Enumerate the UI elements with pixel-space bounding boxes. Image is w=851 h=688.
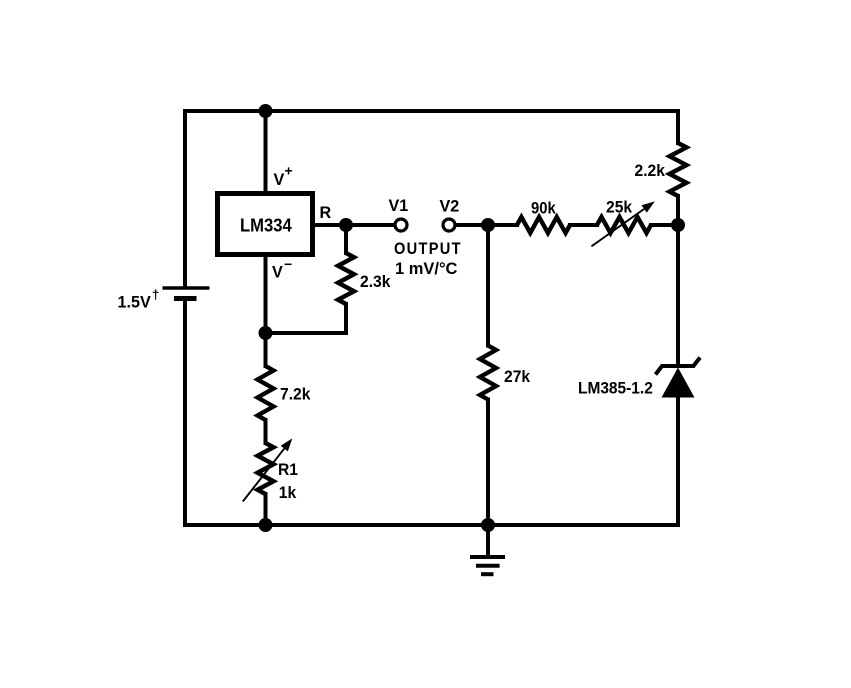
wire left rail lower (battery to bottom) <box>183 299 187 526</box>
svg-text:†: † <box>152 287 159 302</box>
potentiometer arrow 25k <box>591 201 654 246</box>
svg-text:V1: V1 <box>389 196 409 215</box>
zener diode LM385-1.2 anode triangle <box>662 368 695 398</box>
svg-text:OUTPUT: OUTPUT <box>394 240 462 258</box>
junction node V2 / 27k <box>481 218 495 232</box>
svg-text:27k: 27k <box>504 367 531 386</box>
svg-text:+: + <box>285 163 293 179</box>
potentiometer 25k <box>597 217 651 233</box>
junction node V- / 2.3k return <box>259 326 273 340</box>
resistor 90k <box>517 217 570 233</box>
svg-text:1.5V: 1.5V <box>118 292 151 311</box>
wire 25k to right rail <box>651 223 678 227</box>
wire R1 to bottom rail <box>264 494 268 525</box>
wire bottom rail <box>185 523 678 527</box>
wire LM334 V+ lead <box>264 111 268 191</box>
resistor 7.2k <box>258 366 274 420</box>
wire between 7.2k and R1 <box>264 420 268 443</box>
svg-text:V2: V2 <box>440 196 460 215</box>
resistor 2.2k <box>670 143 687 196</box>
wire V- node to 2.3k bottom <box>266 331 347 335</box>
svg-text:90k: 90k <box>531 200 556 218</box>
svg-text:2.2k: 2.2k <box>635 161 666 180</box>
zener diode LM385-1.2 cathode bar <box>656 358 701 375</box>
svg-text:LM334: LM334 <box>240 215 292 236</box>
svg-text:V: V <box>272 262 283 281</box>
wire V2 terminal to 90k <box>456 223 517 227</box>
wire LM334 V- lead <box>264 256 268 366</box>
wire 90k to 25k <box>570 223 597 227</box>
wire right rail top (to 2.2k) <box>676 111 680 143</box>
svg-text:R: R <box>320 203 332 222</box>
svg-text:−: − <box>284 256 292 272</box>
wire right rail mid (2.2k to zener cathode) <box>676 196 680 365</box>
svg-text:25k: 25k <box>606 198 633 217</box>
wire 27k to bottom rail <box>486 400 490 526</box>
battery 1.5V negative plate <box>174 296 197 301</box>
wire LM334 R pin to V1 terminal <box>315 223 394 227</box>
junction node 25k / right rail <box>671 218 685 232</box>
IC LM334 body <box>218 194 313 255</box>
potentiometer arrow R1 <box>243 438 292 501</box>
resistor 2.3k <box>338 253 354 304</box>
svg-text:2.3k: 2.3k <box>360 272 391 291</box>
svg-text:1k: 1k <box>279 483 297 502</box>
junction node 27k / ground <box>481 518 495 532</box>
terminal V2 <box>443 219 455 231</box>
svg-text:LM385-1.2: LM385-1.2 <box>578 379 653 398</box>
wire top rail <box>185 109 678 113</box>
wire V2 node down to 27k <box>486 225 490 346</box>
wire 2.3k top lead to R node <box>344 225 348 253</box>
junction node R1 / bottom rail <box>259 518 273 532</box>
junction node R pin / 2.3k <box>339 218 353 232</box>
resistor 27k <box>480 346 496 400</box>
terminal V1 <box>395 219 407 231</box>
svg-text:V: V <box>274 170 285 189</box>
junction node top rail / V+ <box>259 104 273 118</box>
svg-text:7.2k: 7.2k <box>280 385 311 404</box>
potentiometer R1 1k <box>258 443 274 494</box>
svg-text:1 mV/°C: 1 mV/°C <box>395 259 457 278</box>
svg-text:R1: R1 <box>278 460 298 479</box>
wire 2.3k bottom lead <box>344 304 348 333</box>
wire right rail bottom (zener anode to bottom rail) <box>676 397 680 525</box>
ground <box>470 557 505 574</box>
wire ground stub <box>486 525 490 555</box>
wire left rail upper (to battery) <box>183 111 187 287</box>
battery 1.5V positive plate <box>163 286 210 289</box>
